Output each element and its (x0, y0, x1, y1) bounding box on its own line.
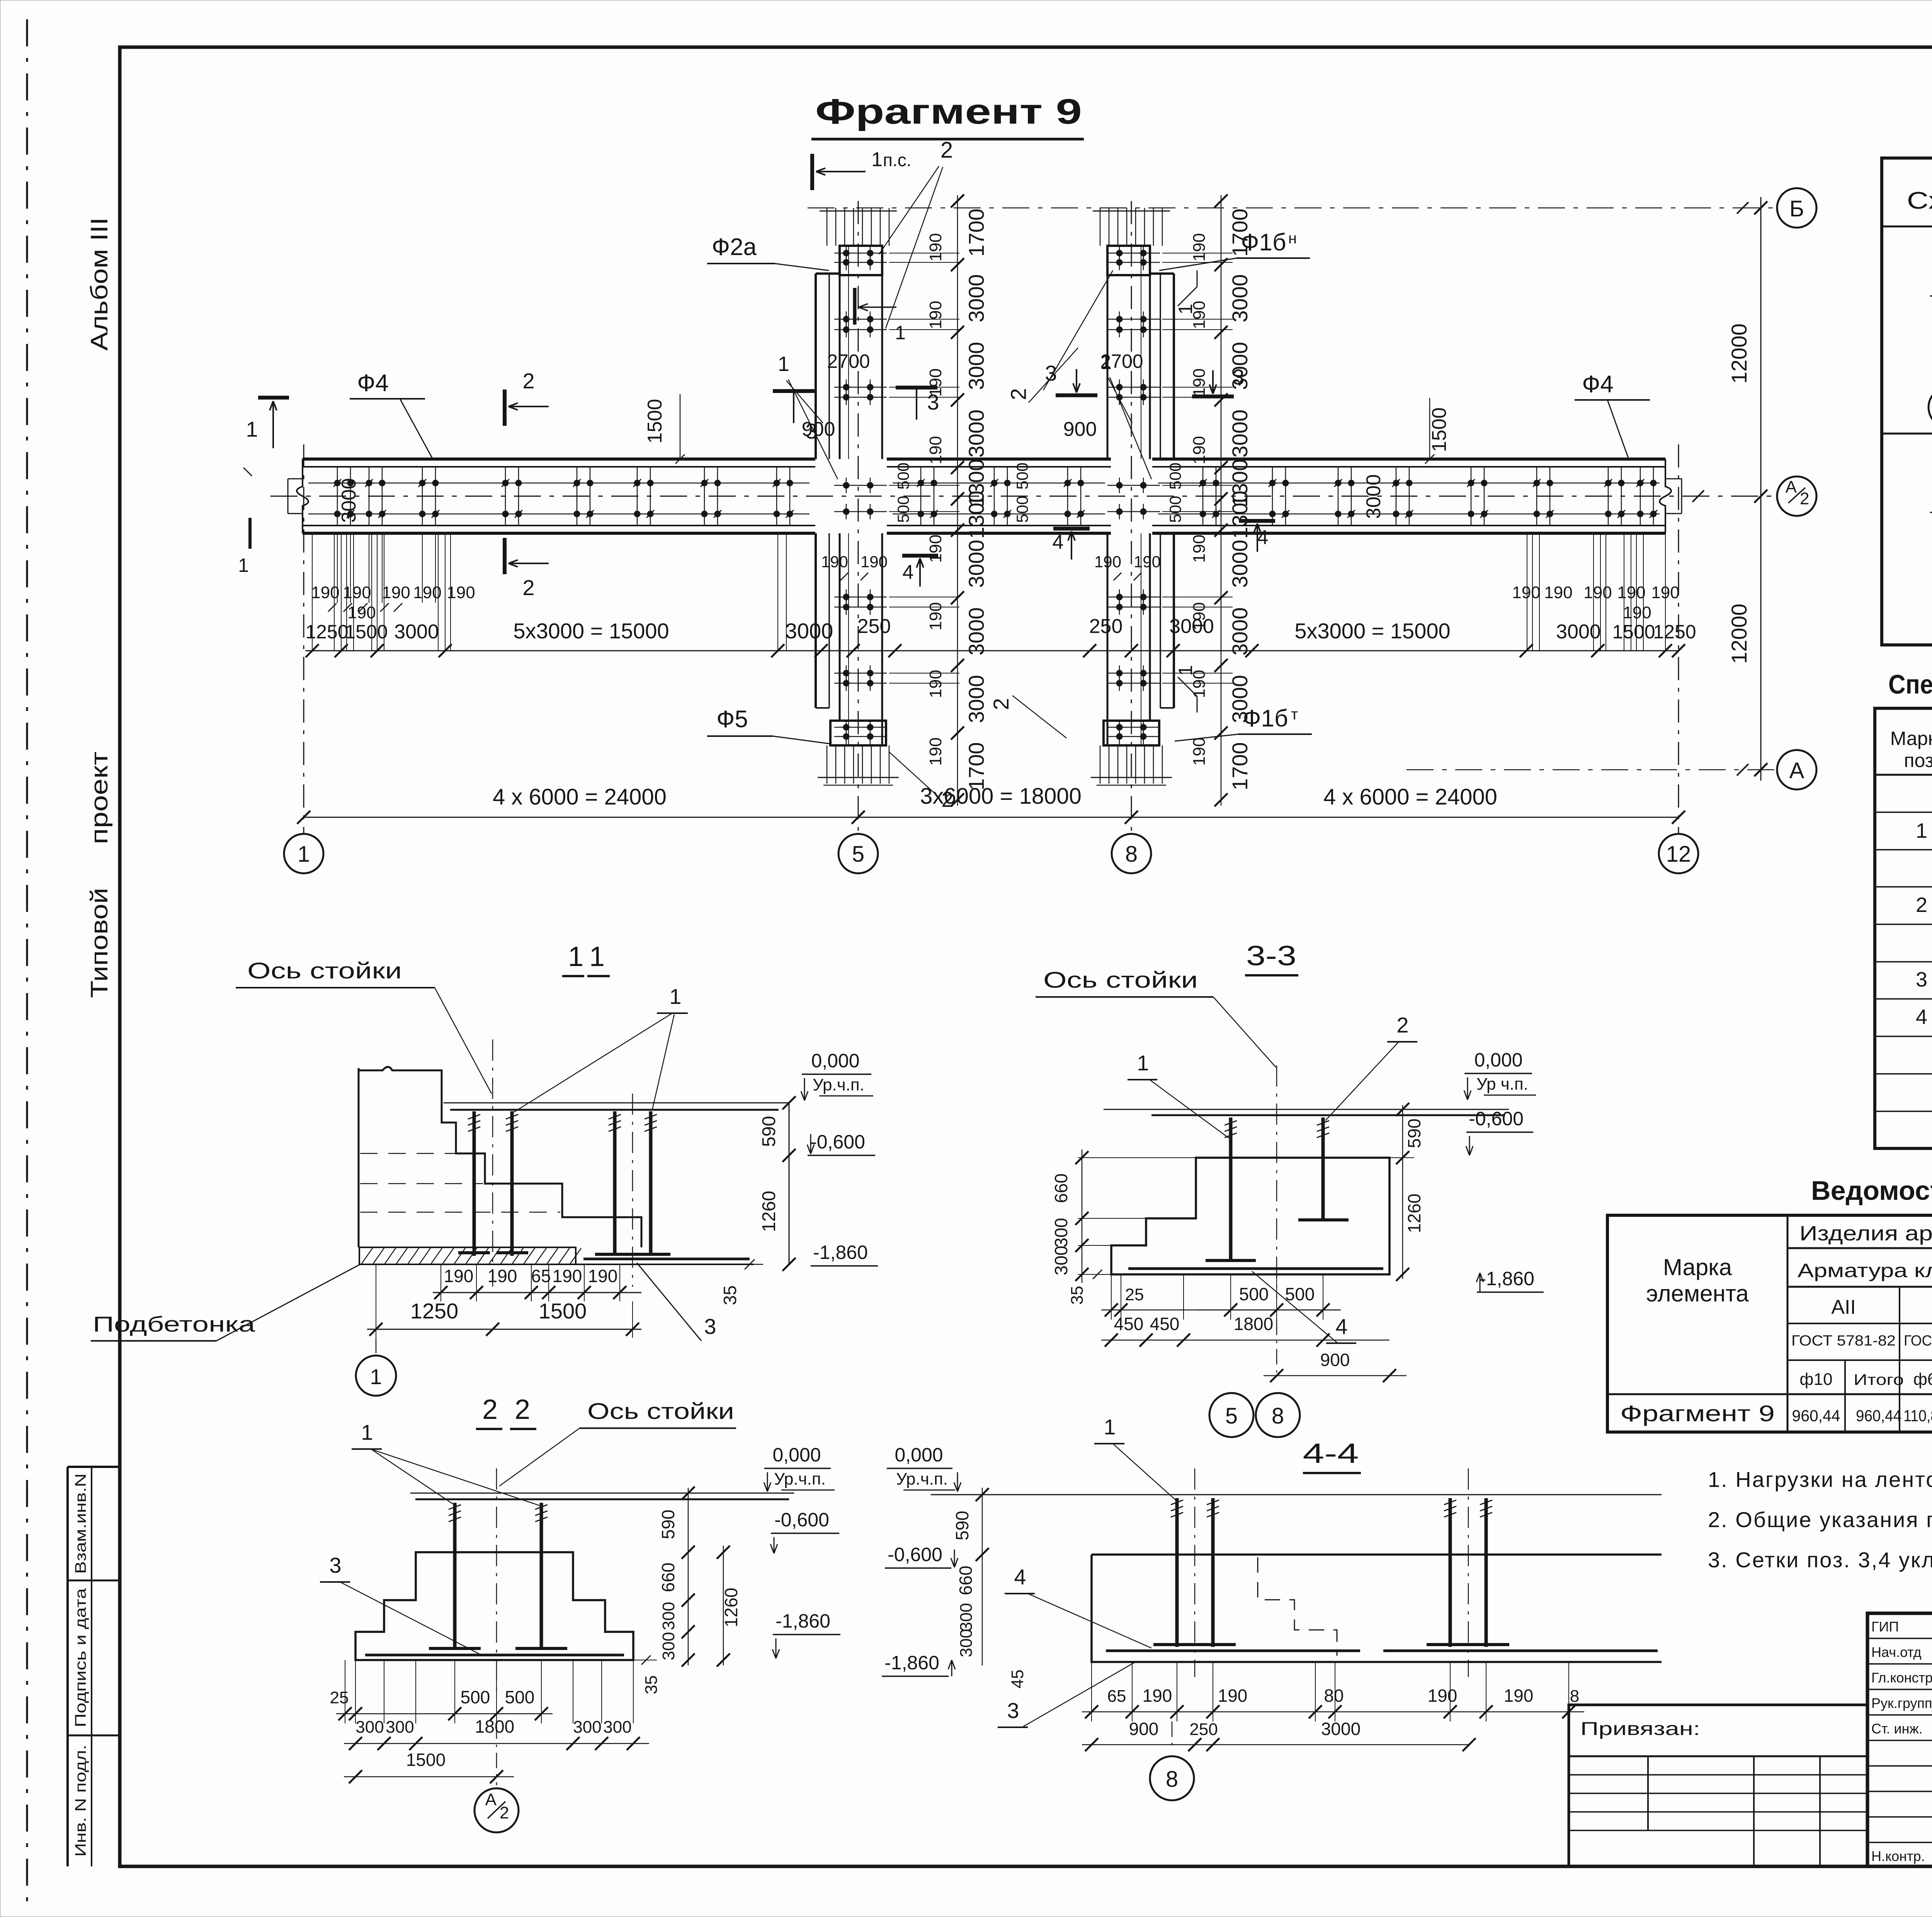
section 2-2 right dims (633, 1660, 657, 1660)
svg-text:т: т (1291, 706, 1298, 723)
svg-text:5x3000 = 15000: 5x3000 = 15000 (1294, 619, 1450, 643)
svg-text:190: 190 (1651, 583, 1679, 602)
svg-text:35: 35 (1068, 1286, 1087, 1305)
svg-text:Фрагмент 9: Фрагмент 9 (1620, 1401, 1775, 1426)
svg-text:Нач.отд: Нач.отд (1871, 1644, 1922, 1660)
svg-text:190: 190 (1512, 583, 1540, 602)
svg-text:1: 1 (669, 984, 681, 1009)
section 1-1 lower dims (440, 1264, 441, 1301)
svg-text:Ось стойки: Ось стойки (1043, 968, 1198, 993)
section marker 1 inside strip (853, 288, 857, 325)
svg-text:АII: АII (1831, 1296, 1856, 1318)
svg-text:190: 190 (1190, 436, 1209, 464)
svg-text:190: 190 (1143, 1686, 1172, 1706)
svg-text:450: 450 (1150, 1314, 1180, 1334)
section 3-3 bottom rebar (1128, 1267, 1383, 1270)
section 3-3 axis circles 5 8 (1276, 1320, 1277, 1376)
svg-text:1: 1 (1175, 304, 1196, 315)
svg-text:190: 190 (821, 553, 848, 571)
band lower extension lines right (1527, 533, 1527, 651)
section 3-3 foundation outline (1111, 1158, 1389, 1274)
svg-text:1: 1 (589, 941, 605, 972)
svg-text:190: 190 (488, 1266, 517, 1286)
band longitudinal rebar lines (308, 483, 810, 484)
svg-text:190: 190 (926, 436, 945, 464)
section markers 4-4 (1053, 527, 1090, 531)
svg-text:1. Нагрузки на ленточный фу: 1. Нагрузки на ленточный фундамент даны … (1708, 1466, 1932, 1492)
svg-text:190: 190 (926, 737, 945, 765)
svg-text:3: 3 (927, 390, 939, 414)
svg-text:1250: 1250 (305, 621, 348, 643)
section 2-2 bottom rebar (365, 1654, 624, 1657)
svg-text:0,000: 0,000 (895, 1444, 943, 1466)
svg-text:190: 190 (1504, 1686, 1534, 1706)
svg-text:А: А (1786, 478, 1797, 497)
svg-text:500: 500 (894, 463, 912, 490)
band anchor-bolt groups (0, 0, 0, 0)
svg-text:65: 65 (531, 1266, 551, 1286)
svg-text:3000: 3000 (1321, 1719, 1361, 1739)
svg-text:Ур.ч.п.: Ур.ч.п. (896, 1470, 948, 1488)
svg-text:Н.контр.: Н.контр. (1871, 1848, 1925, 1864)
svg-text:1260: 1260 (721, 1588, 741, 1627)
svg-text:Схема нагрузок: Схема нагрузок (1907, 187, 1932, 214)
section 1-1 vertical dim 590/1260 (789, 1103, 790, 1264)
svg-text:Ф5: Ф5 (716, 706, 748, 733)
svg-text:1260: 1260 (1404, 1194, 1424, 1233)
svg-text:2700: 2700 (827, 350, 870, 372)
section 1-1 hidden dashed lines (360, 1183, 483, 1184)
svg-text:Подпись и дата: Подпись и дата (72, 1588, 89, 1727)
section 4-4 bolts (1175, 1498, 1179, 1647)
svg-text:2: 2 (522, 575, 534, 600)
svg-text:190: 190 (1190, 233, 1209, 261)
svg-text:4: 4 (1014, 1565, 1026, 1589)
svg-text:190: 190 (553, 1266, 582, 1286)
svg-text:-1,860: -1,860 (776, 1610, 830, 1632)
svg-text:Ось стойки: Ось стойки (587, 1399, 734, 1424)
svg-text:190: 190 (1428, 1686, 1458, 1706)
svg-text:Привязан:: Привязан: (1580, 1719, 1700, 1739)
svg-text:1: 1 (568, 941, 583, 972)
svg-text:1700: 1700 (1228, 742, 1252, 791)
svg-text:3-3: 3-3 (1246, 941, 1296, 971)
svg-text:0,000: 0,000 (811, 1050, 859, 1072)
section 3-3 bolts (1229, 1118, 1233, 1260)
svg-text:110,86: 110,86 (1903, 1407, 1932, 1425)
svg-text:1: 1 (1175, 665, 1196, 676)
section 2-2 axis circle А/2 (496, 1723, 497, 1785)
title block signature rows (1867, 1638, 1932, 1639)
top foundation block (1107, 246, 1150, 275)
band right break end (1660, 459, 1671, 533)
svg-text:190: 190 (382, 583, 410, 602)
svg-text:1250: 1250 (1653, 621, 1696, 643)
svg-text:1: 1 (298, 842, 310, 867)
svg-text:Итого: Итого (1854, 1371, 1904, 1388)
bottom foundation block (1104, 721, 1159, 745)
svg-text:25: 25 (330, 1688, 349, 1707)
svg-text:1: 1 (1916, 819, 1927, 842)
svg-text:660: 660 (658, 1563, 678, 1592)
svg-text:Ведомость расхода металла н: Ведомость расхода металла на Фрагмент 9 … (1811, 1175, 1932, 1206)
svg-text:500: 500 (894, 496, 912, 523)
svg-text:500: 500 (1013, 463, 1031, 490)
svg-text:25: 25 (1125, 1285, 1144, 1304)
section 2-2 stepped foundation outline (355, 1552, 633, 1660)
section 3-3 lower dims (1111, 1274, 1112, 1320)
svg-text:190: 190 (1544, 583, 1572, 602)
svg-text:Фрагмент 9: Фрагмент 9 (815, 92, 1082, 131)
column strip foundation, axis at x=2928 (1173, 274, 1175, 459)
svg-text:1: 1 (370, 1364, 382, 1389)
svg-text:5: 5 (1225, 1403, 1238, 1429)
svg-text:660: 660 (1051, 1174, 1071, 1203)
svg-text:3: 3 (329, 1553, 341, 1577)
svg-text:190: 190 (1218, 1686, 1248, 1706)
svg-text:н: н (1288, 230, 1297, 247)
svg-text:0,000: 0,000 (772, 1444, 821, 1466)
svg-text:12000: 12000 (1727, 604, 1751, 664)
axis circle 12 (1659, 834, 1698, 873)
strip bolt rows (1107, 253, 1160, 254)
svg-text:элемента: элемента (1646, 1281, 1749, 1306)
section 1-1 bolt plates (458, 1251, 490, 1254)
svg-text:3000: 3000 (1228, 274, 1252, 323)
svg-text:поз.: поз. (1904, 750, 1932, 771)
section 1-1 base line (359, 1264, 753, 1265)
svg-text:-0,600: -0,600 (888, 1544, 942, 1565)
leader 1 right of axis8 top (1178, 287, 1197, 306)
svg-text:4: 4 (1335, 1314, 1347, 1339)
svg-text:500: 500 (1166, 496, 1184, 523)
axis circle 5 (838, 834, 878, 873)
svg-text:Гл.констр.: Гл.констр. (1871, 1670, 1932, 1686)
svg-text:900: 900 (1320, 1350, 1350, 1370)
band centreline axis А/2 (270, 496, 1777, 497)
svg-text:2700: 2700 (1100, 350, 1143, 372)
axis circle 1 (284, 834, 323, 873)
svg-text:300: 300 (957, 1629, 976, 1657)
svg-text:-0,600: -0,600 (774, 1509, 829, 1531)
svg-text:3x6000 = 18000: 3x6000 = 18000 (920, 784, 1082, 809)
svg-text:ф6: ф6 (1913, 1370, 1932, 1389)
svg-text:3000: 3000 (964, 607, 988, 656)
svg-text:А: А (485, 1790, 497, 1809)
svg-text:190: 190 (861, 553, 888, 571)
svg-text:2: 2 (522, 369, 534, 393)
section 4-4 lower dims (1091, 1662, 1092, 1721)
rotated dimension chain along strip (957, 195, 958, 806)
svg-text:ГОСТ 5781-82: ГОСТ 5781-82 (1791, 1333, 1896, 1349)
svg-text:1500: 1500 (345, 621, 388, 643)
title block outer (1867, 1613, 1932, 1866)
svg-text:3000: 3000 (1169, 615, 1214, 638)
svg-text:Типовой: Типовой (86, 888, 113, 998)
section marker 2 below band (503, 538, 507, 574)
axis circle Б (1777, 188, 1816, 228)
svg-text:ГОСТ 5781-82: ГОСТ 5781-82 (1904, 1333, 1932, 1349)
section 4-4 ground line (931, 1494, 1662, 1495)
svg-text:190: 190 (926, 602, 945, 630)
svg-text:5x3000 = 15000: 5x3000 = 15000 (513, 619, 669, 643)
svg-text:960,44: 960,44 (1792, 1407, 1840, 1425)
svg-text:Инв. N подл.: Инв. N подл. (72, 1745, 89, 1857)
section 1-1 wall and steps outline (359, 1067, 641, 1247)
svg-text:660: 660 (956, 1566, 976, 1596)
svg-text:45: 45 (1008, 1670, 1027, 1689)
svg-text:4 x 6000 = 24000: 4 x 6000 = 24000 (1323, 784, 1497, 810)
svg-text:65: 65 (1107, 1687, 1126, 1706)
svg-text:500: 500 (1239, 1284, 1269, 1304)
specification grid (1875, 708, 1932, 1148)
svg-text:Ур.ч.п.: Ур.ч.п. (813, 1075, 864, 1094)
svg-text:300: 300 (386, 1718, 414, 1737)
svg-text:Ф2а: Ф2а (712, 234, 757, 260)
section 3-3 right dim 590/1260 (1389, 1157, 1414, 1158)
svg-text:900: 900 (802, 418, 835, 441)
strip foundation band: outer and inner edge lines (303, 458, 815, 461)
section marker 2 above band (503, 390, 507, 426)
label 1 at band left end (258, 396, 289, 400)
strip bolt rows (834, 253, 887, 254)
section 2-2 ground lines (410, 1493, 794, 1494)
section 3-3 left dims 660/300/300/35 (1078, 1157, 1196, 1158)
section 1-1 centrelines (492, 1039, 493, 1287)
svg-text:190: 190 (347, 603, 376, 622)
svg-text:300: 300 (603, 1718, 631, 1737)
svg-text:190: 190 (1190, 737, 1209, 765)
svg-text:2. Общие указания по фундам: 2. Общие указания по фундаментам см. лис… (1708, 1507, 1932, 1532)
section 4-4 hidden steps dashed (1258, 1557, 1337, 1656)
band lower extension lines left (312, 533, 313, 651)
svg-text:Ось стойки: Ось стойки (247, 958, 402, 983)
axis centrelines down to circles (303, 444, 304, 834)
svg-text:1500: 1500 (406, 1750, 446, 1770)
svg-text:1500: 1500 (644, 399, 666, 444)
svg-text:ф10: ф10 (1799, 1370, 1832, 1389)
svg-text:190: 190 (1190, 534, 1209, 563)
svg-text:А: А (1789, 758, 1804, 783)
svg-text:1: 1 (895, 322, 906, 344)
svg-text:3000: 3000 (1556, 621, 1601, 643)
svg-text:2: 2 (1916, 893, 1927, 917)
svg-text:Рук.группы: Рук.группы (1871, 1695, 1932, 1711)
svg-text:1300: 1300 (964, 491, 988, 539)
section 2-2 centreline (496, 1468, 497, 1696)
svg-text:1: 1 (1137, 1051, 1149, 1075)
svg-text:190: 190 (1134, 553, 1161, 571)
svg-text:1250: 1250 (410, 1299, 459, 1323)
svg-text:80: 80 (1324, 1686, 1344, 1706)
rotated dimension chain along strip (1221, 195, 1222, 806)
svg-text:3: 3 (1007, 1698, 1019, 1723)
section 3-3 ground lines (1104, 1109, 1509, 1110)
svg-text:190: 190 (926, 233, 945, 261)
svg-text:3000: 3000 (785, 619, 833, 643)
metal table grid (1607, 1215, 1932, 1432)
svg-text:300: 300 (355, 1718, 384, 1737)
svg-text:190: 190 (926, 301, 945, 329)
svg-text:2: 2 (482, 1394, 498, 1425)
svg-text:250: 250 (1189, 1720, 1218, 1739)
master dim line left (305, 650, 1679, 651)
svg-text:2: 2 (1006, 388, 1031, 400)
svg-text:500: 500 (461, 1687, 490, 1707)
svg-text:190: 190 (1623, 603, 1651, 622)
svg-text:190: 190 (1583, 583, 1612, 602)
svg-text:п.с.: п.с. (883, 150, 911, 170)
svg-text:190: 190 (1190, 368, 1209, 396)
svg-text:300: 300 (659, 1632, 678, 1660)
svg-text:1700: 1700 (964, 209, 988, 257)
svg-text:190: 190 (444, 1266, 474, 1286)
svg-text:0,000: 0,000 (1474, 1049, 1522, 1071)
svg-text:3000: 3000 (1362, 474, 1385, 519)
column strip foundation, axis at x=2221 (815, 274, 817, 459)
привязан box (1569, 1705, 1867, 1866)
svg-text:300: 300 (659, 1602, 678, 1630)
svg-text:-0,600: -0,600 (810, 1131, 865, 1153)
vertical 12000 dims (1760, 197, 1762, 781)
svg-text:-1,860: -1,860 (1480, 1268, 1534, 1289)
svg-text:900: 900 (1129, 1719, 1159, 1739)
svg-text:Ф4: Ф4 (1582, 371, 1614, 398)
svg-text:300: 300 (1051, 1246, 1071, 1276)
svg-text:Ф1б: Ф1б (1241, 229, 1286, 256)
section 2-2 bolts (453, 1503, 457, 1649)
band left small markers (248, 518, 252, 549)
svg-text:-1,860: -1,860 (813, 1242, 868, 1263)
section 1-1 ground lines (444, 1102, 788, 1104)
svg-text:450: 450 (1114, 1314, 1144, 1334)
svg-text:900: 900 (1063, 418, 1097, 441)
svg-text:3. Сетки поз. 3,4 укладывать: 3. Сетки поз. 3,4 укладывать с зазором 1… (1708, 1548, 1932, 1572)
svg-text:Ф4: Ф4 (357, 370, 389, 396)
svg-text:3000: 3000 (338, 478, 360, 523)
svg-text:590: 590 (1404, 1119, 1424, 1148)
svg-text:Ст. инж.: Ст. инж. (1871, 1721, 1923, 1737)
svg-text:3000: 3000 (964, 410, 988, 458)
svg-text:1: 1 (361, 1420, 373, 1444)
svg-text:8: 8 (1272, 1403, 1284, 1429)
svg-text:1500: 1500 (1612, 621, 1655, 643)
svg-text:590: 590 (658, 1510, 678, 1539)
svg-text:2: 2 (989, 698, 1013, 710)
svg-text:3000: 3000 (1228, 607, 1252, 656)
svg-text:12: 12 (1666, 842, 1691, 867)
section 2-2 lower dims (345, 1660, 345, 1723)
svg-text:Арматура класса: Арматура класса (1798, 1260, 1932, 1281)
svg-text:Альбом III: Альбом III (86, 218, 113, 351)
svg-text:4 x 6000 = 24000: 4 x 6000 = 24000 (493, 784, 667, 810)
svg-text:1500: 1500 (539, 1299, 587, 1323)
svg-text:250: 250 (857, 615, 891, 638)
svg-text:1500: 1500 (1428, 407, 1451, 452)
svg-text:Ур ч.п.: Ур ч.п. (1476, 1075, 1528, 1094)
svg-text:1: 1 (778, 352, 789, 376)
svg-text:1800: 1800 (1234, 1314, 1273, 1334)
svg-text:8: 8 (1166, 1767, 1178, 1792)
bottom foundation block (830, 721, 886, 745)
section marker 1п.с. with 2 leader (810, 154, 814, 190)
svg-text:590: 590 (952, 1511, 972, 1541)
svg-text:3000: 3000 (964, 540, 988, 588)
section 4-4 bottom rebar (1106, 1650, 1360, 1652)
section 4-4 left rotated dims (982, 1488, 983, 1665)
section 3-3 centreline (1276, 1065, 1277, 1298)
section 1-1 anchor bolts (473, 1111, 476, 1256)
svg-text:500: 500 (1285, 1284, 1315, 1304)
section markers 3-3 around axis 8 (1056, 393, 1097, 397)
band left break end (297, 459, 308, 533)
svg-text:2: 2 (1396, 1013, 1408, 1037)
row axis lines to Б А/2 А circles (808, 208, 1777, 209)
svg-text:250: 250 (1089, 615, 1123, 638)
svg-text:1260: 1260 (759, 1191, 779, 1232)
svg-text:3000: 3000 (964, 342, 988, 390)
svg-text:Марка,: Марка, (1890, 728, 1932, 749)
svg-text:190: 190 (926, 534, 945, 563)
svg-text:3000: 3000 (394, 621, 439, 643)
svg-text:проект: проект (86, 752, 113, 844)
sheet edge dash-dot line (26, 19, 28, 1905)
svg-text:590: 590 (759, 1116, 779, 1147)
svg-text:190: 190 (311, 583, 339, 602)
svg-text:190: 190 (1094, 553, 1121, 571)
svg-text:4-4: 4-4 (1303, 1438, 1359, 1469)
svg-text:190: 190 (1617, 583, 1645, 602)
section markers 3-3 around axis 5 (773, 389, 815, 393)
svg-text:4: 4 (903, 561, 914, 583)
svg-text:12000: 12000 (1727, 323, 1751, 384)
section 4-4 foundation outline (1092, 1555, 1662, 1662)
svg-text:8: 8 (1125, 842, 1138, 867)
svg-text:2: 2 (940, 138, 953, 163)
svg-text:3000: 3000 (964, 274, 988, 323)
svg-text:Ур.ч.п.: Ур.ч.п. (774, 1470, 826, 1488)
svg-text:190: 190 (447, 583, 475, 602)
svg-text:1: 1 (871, 148, 883, 171)
section 1-1 blinding concrete (подбетонка) hatched strip (359, 1247, 576, 1264)
axis circle А (1777, 750, 1816, 789)
section 4-4 centrelines (1194, 1468, 1196, 1677)
svg-text:-0,600: -0,600 (1469, 1108, 1524, 1129)
svg-text:8: 8 (1570, 1687, 1579, 1706)
svg-text:190: 190 (413, 583, 441, 602)
svg-text:1800: 1800 (475, 1716, 514, 1737)
svg-text:3: 3 (1232, 365, 1244, 389)
svg-text:4: 4 (1916, 1005, 1927, 1029)
svg-text:3000: 3000 (964, 675, 988, 723)
svg-text:Марка: Марка (1663, 1254, 1732, 1280)
svg-text:1: 1 (238, 555, 249, 576)
svg-text:190: 190 (588, 1266, 618, 1286)
svg-text:Ф1б: Ф1б (1243, 705, 1288, 732)
svg-text:Спецификация элементов и мат: Спецификация элементов и материалов на Ф… (1888, 669, 1932, 699)
svg-text:500: 500 (1013, 496, 1031, 523)
axis circle А/2 (1777, 476, 1816, 516)
axis circle 8 (1112, 834, 1151, 873)
svg-text:1: 1 (246, 417, 258, 441)
svg-text:300: 300 (573, 1718, 601, 1737)
svg-text:Б: Б (1789, 196, 1804, 221)
svg-text:300: 300 (1051, 1218, 1071, 1248)
svg-text:1700: 1700 (964, 742, 988, 791)
svg-text:3000: 3000 (1228, 410, 1252, 458)
section 1-1 slab rebar right (583, 1258, 750, 1260)
svg-text:3: 3 (1916, 968, 1927, 991)
